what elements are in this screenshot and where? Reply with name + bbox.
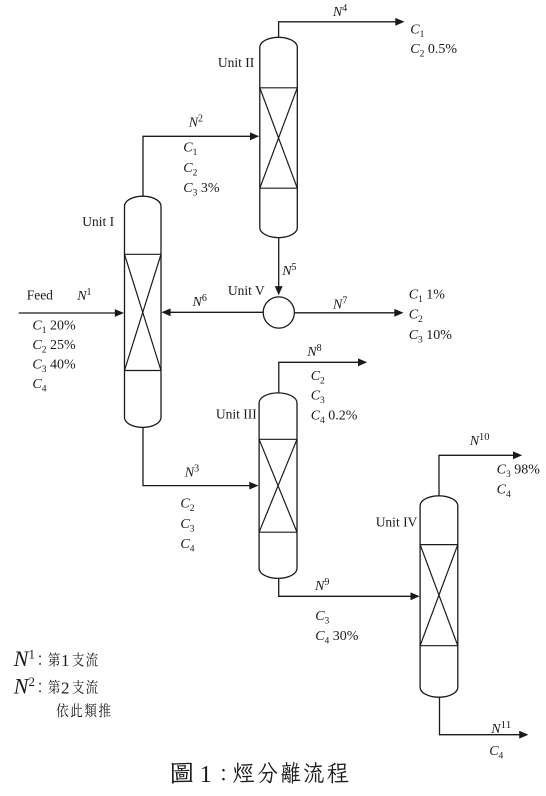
wire N6 (Unit V recycle to Unit I)	[170, 311, 263, 313]
svg-text:1: 1	[61, 651, 70, 670]
arrowhead N4	[395, 18, 404, 26]
svg-text:1: 1	[200, 762, 212, 788]
svg-text:C3 10%: C3 10%	[409, 328, 453, 346]
column Unit II (vessel with packing X-section)	[260, 37, 298, 237]
svg-text:Unit II: Unit II	[218, 55, 255, 70]
arrowhead N5	[275, 286, 283, 295]
svg-text:C4 0.2%: C4 0.2%	[311, 408, 358, 426]
arrowhead N9	[411, 592, 420, 600]
composition labels stream N11	[489, 744, 503, 762]
svg-text:C3 98%: C3 98%	[497, 463, 541, 481]
svg-text:Feed: Feed	[27, 288, 53, 303]
wire N8 (Unit III top product)	[279, 362, 359, 400]
svg-text:C1 1%: C1 1%	[409, 288, 446, 306]
wire N7 (Unit V outlet)	[294, 312, 395, 314]
arrowhead N6	[161, 308, 170, 316]
svg-text:Unit III: Unit III	[216, 406, 257, 421]
composition labels stream N4	[410, 23, 457, 60]
column Unit IV (vessel with packing X-section)	[420, 496, 458, 697]
arrowhead feed	[115, 309, 124, 317]
legend line: and so on	[56, 703, 110, 717]
wire N9 (Unit III bottom to Unit IV)	[279, 570, 412, 596]
wire N4 (Unit II top product)	[279, 22, 396, 45]
svg-text:C3 3%: C3 3%	[183, 181, 220, 199]
arrowhead N8	[358, 358, 367, 366]
composition labels stream N8	[311, 369, 358, 426]
legend line N2 : second branch	[13, 673, 98, 698]
composition labels stream N3	[180, 497, 194, 555]
wire N10 (Unit IV top product)	[439, 455, 514, 505]
composition labels stream N10	[497, 463, 541, 501]
mixer Unit V (circle)	[263, 297, 294, 328]
svg-text:Unit IV: Unit IV	[376, 515, 418, 530]
column Unit I (vessel with packing X-section)	[125, 196, 162, 427]
svg-text:2: 2	[61, 678, 70, 697]
composition labels feed stream	[32, 319, 76, 395]
wire feed inlet	[19, 312, 116, 314]
arrowhead N2	[250, 132, 259, 140]
legend line N1 : first branch	[13, 646, 98, 671]
composition labels stream N9	[315, 609, 359, 646]
svg-text:C3 40%: C3 40%	[32, 357, 76, 375]
arrowhead N7	[394, 309, 403, 317]
composition labels stream N2	[183, 141, 220, 199]
arrowhead N11	[519, 731, 528, 739]
wire N11 (Unit IV bottom product)	[440, 690, 520, 735]
column Unit III (vessel with packing X-section)	[259, 393, 297, 579]
svg-text:Unit I: Unit I	[82, 214, 114, 229]
wire N2 (Unit I top to Unit II)	[143, 136, 251, 205]
composition labels stream N7	[409, 288, 453, 346]
svg-text:C1 20%: C1 20%	[32, 319, 76, 337]
wire N5 (Unit II bottom to Unit V)	[278, 230, 280, 287]
caption: Figure 1 hydrocarbon separation process	[171, 762, 348, 788]
arrowhead N10	[513, 451, 522, 459]
svg-text:C4 30%: C4 30%	[315, 629, 359, 647]
svg-text:C2 25%: C2 25%	[32, 338, 76, 356]
arrowhead N3	[249, 482, 258, 490]
svg-text:C2 0.5%: C2 0.5%	[410, 42, 457, 60]
wire N3 (Unit I bottom to Unit III)	[143, 420, 250, 486]
svg-text:Unit V: Unit V	[228, 283, 265, 298]
